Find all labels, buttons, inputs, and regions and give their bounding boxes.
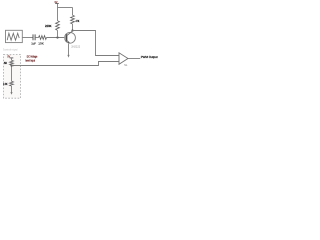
svg-text:220K: 220K <box>45 24 52 28</box>
svg-text:47K: 47K <box>76 19 80 23</box>
svg-text:level input: level input <box>25 58 35 62</box>
svg-text:PWM Output: PWM Output <box>141 55 158 59</box>
svg-text:1.5K: 1.5K <box>3 82 7 86</box>
svg-text:5K: 5K <box>4 61 7 65</box>
svg-text:10K: 10K <box>38 41 44 45</box>
svg-text:2N2222: 2N2222 <box>71 44 80 48</box>
svg-text:1uF: 1uF <box>31 41 36 45</box>
svg-text:Sawtooth signal: Sawtooth signal <box>3 47 18 51</box>
svg-text:741: 741 <box>124 64 128 67</box>
